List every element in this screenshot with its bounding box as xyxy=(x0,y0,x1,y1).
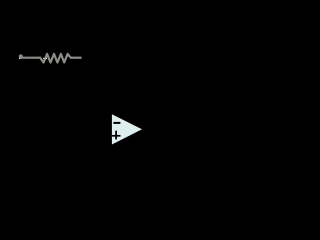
node left post xyxy=(19,54,23,58)
op-amp U1 xyxy=(112,114,142,144)
op-amp triangle body xyxy=(112,114,142,144)
plus label (non-inverting input) xyxy=(112,135,121,137)
resistor R1 xyxy=(19,54,82,63)
wire zigzag body xyxy=(40,54,71,63)
minus label (inverting input) xyxy=(113,122,120,124)
wire left lead xyxy=(20,57,40,59)
node highlight pixels (white marks) xyxy=(19,58,47,59)
wire right lead xyxy=(71,57,82,59)
